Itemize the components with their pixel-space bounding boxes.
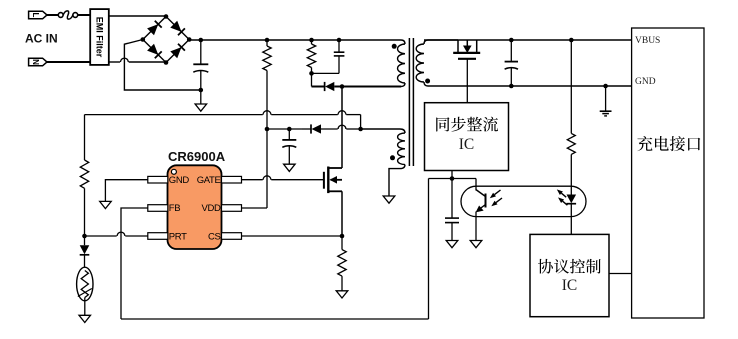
svg-text:IC: IC — [562, 277, 578, 294]
resistor R1 (startup) — [265, 38, 270, 43]
terminal N — [29, 58, 47, 66]
capacitor C3 (VDD) — [287, 127, 292, 132]
node PRT — [82, 234, 87, 239]
transistor Q1 MOSFET — [323, 172, 325, 189]
optocoupler U3 body — [461, 186, 586, 216]
diode D1 (clamp) — [311, 73, 313, 86]
svg-text:EMI Filter: EMI Filter — [95, 17, 105, 58]
opto LED D4 — [567, 195, 577, 204]
connector J1 charge port — [632, 28, 704, 318]
wire EMI bottom to bridge (hop over DC- line) — [109, 61, 120, 63]
ground aux — [383, 196, 395, 203]
resistor R2 (snubber) — [309, 38, 314, 43]
ground C3 — [284, 164, 296, 171]
resistor R3 (sense divider) — [84, 115, 86, 160]
ground GND pin — [100, 201, 112, 208]
bridge vertex junctions — [164, 14, 169, 19]
light arrows to transistor — [495, 190, 501, 195]
IC U1 body — [168, 165, 222, 249]
wire EMI top to bridge — [109, 15, 166, 17]
earth ground secondary — [605, 86, 607, 111]
pin GATE — [222, 176, 242, 183]
wire PRT pin (hop over FB line) — [125, 235, 148, 237]
wire drain — [341, 87, 343, 169]
svg-text:PRT: PRT — [169, 231, 187, 242]
thermistor RT1 — [77, 267, 93, 301]
wire DC- from left vertex down — [124, 40, 200, 91]
svg-text:N: N — [31, 59, 40, 65]
aux phase dot — [390, 155, 395, 160]
node VBUS-opto feed — [569, 38, 574, 43]
primary phase dot — [392, 44, 397, 49]
bulk capacitor C1 — [200, 40, 202, 64]
pin CS — [222, 233, 242, 240]
diode D2 (aux rectifier) — [267, 128, 302, 130]
wire U4 to connector — [609, 273, 632, 275]
transformer T1 primary — [401, 40, 405, 44]
EMI filter box — [90, 9, 109, 65]
fuse F1 — [58, 13, 63, 18]
stub U2 to opto wire — [451, 171, 453, 179]
svg-text:IC: IC — [459, 136, 475, 153]
wire FB pin — [121, 208, 148, 319]
pin GND — [148, 176, 168, 183]
wire bottom feedback rail — [121, 318, 429, 320]
wire fuse to EMI — [78, 14, 91, 16]
svg-text:L: L — [31, 13, 40, 18]
IC U4 protocol box — [530, 234, 609, 316]
diode D3 — [84, 236, 86, 245]
pin PRT — [148, 233, 168, 240]
wire GND rail — [428, 85, 632, 87]
wire opto feed — [570, 40, 572, 133]
capacitor C4 (output) — [509, 38, 514, 43]
transistor Q2 (sync FET) — [457, 40, 459, 53]
svg-text:CS: CS — [208, 231, 221, 242]
svg-text:GND: GND — [169, 175, 190, 186]
IC U2 sync-rect box — [425, 103, 509, 171]
ground RT1 — [79, 315, 91, 322]
node secondary gnd — [603, 84, 608, 89]
svg-text:VBUS: VBUS — [635, 36, 660, 46]
ground C5 — [446, 241, 458, 248]
capacitor C2 (snubber) — [337, 38, 342, 43]
svg-text:VDD: VDD — [201, 203, 220, 214]
wire N to EMI — [47, 61, 90, 63]
light arrows from LED — [561, 193, 566, 197]
wire DC+ rail — [189, 39, 401, 41]
node CS — [340, 234, 345, 239]
ground R4 — [336, 291, 348, 298]
transformer T1 auxiliary winding — [361, 129, 405, 133]
svg-text:GND: GND — [635, 77, 656, 87]
pin-1 marker — [171, 169, 176, 174]
bridge rectifier BD1 — [143, 17, 166, 40]
wire CS pin — [242, 235, 343, 237]
opto phototransistor — [475, 179, 477, 191]
capacitor C5 — [451, 179, 453, 219]
wire VDD pin — [242, 207, 268, 209]
node DC- — [199, 88, 204, 93]
transformer T1 secondary — [424, 40, 458, 44]
svg-text:GATE: GATE — [197, 175, 221, 186]
secondary phase dot — [425, 79, 430, 84]
wire line-sense (aux to divider) — [85, 114, 263, 116]
pin FB — [148, 205, 168, 212]
svg-text:CR6900A: CR6900A — [168, 149, 226, 164]
ground primary DC- — [200, 90, 202, 104]
wire sync FET gate — [466, 59, 468, 103]
node snubber — [309, 71, 314, 76]
pin VDD — [222, 205, 242, 212]
resistor R5 — [567, 133, 575, 154]
node drain top — [340, 84, 345, 89]
resistor R4 (CS sense) — [341, 236, 343, 250]
wire GATE (hop over R1 line) — [263, 176, 271, 180]
node opto wire — [450, 176, 455, 181]
svg-text:FB: FB — [169, 203, 180, 214]
svg-text:AC IN: AC IN — [25, 32, 58, 46]
node VDD-R1 — [265, 127, 270, 132]
terminal L — [29, 11, 47, 19]
ground opto emitter — [470, 241, 482, 248]
transformer core — [408, 38, 410, 166]
wire VBUS rail — [424, 39, 632, 41]
wire GND pin to ground — [105, 180, 147, 202]
wire source to CS node — [341, 191, 343, 236]
wire L to fuse — [47, 14, 59, 16]
